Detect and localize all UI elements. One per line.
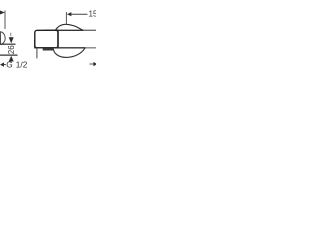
svg-text:26: 26 bbox=[7, 45, 16, 54]
wall line faint right bbox=[84, 29, 97, 31]
bottom line faint right bbox=[86, 47, 97, 49]
arrowhead left-top (cut at edge, points right) bbox=[0, 10, 5, 14]
svg-text:150: 150 bbox=[89, 9, 97, 18]
svg-text:1/2: 1/2 bbox=[16, 60, 28, 70]
dimension arrow 13 (points left) bbox=[67, 12, 72, 16]
arrowhead G12 (points left) bbox=[0, 62, 4, 66]
background bbox=[0, 0, 96, 96]
tick line upper bbox=[0, 43, 16, 45]
centerline dash above down-arrow bbox=[10, 33, 12, 37]
tick line lower bbox=[0, 54, 18, 56]
leader dash G12 bbox=[4, 64, 6, 66]
svg-text:G: G bbox=[6, 60, 12, 70]
extension line top-left bbox=[4, 11, 6, 30]
dimension arrow up bbox=[9, 56, 14, 62]
pipe stub vertical bbox=[36, 48, 38, 58]
extension line top-right bbox=[65, 12, 67, 24]
right edge arrow clipped bbox=[93, 62, 97, 66]
small dash below up-arrow bbox=[10, 62, 12, 64]
body rectangle bbox=[35, 30, 58, 47]
knob half-ellipse left edge bbox=[0, 32, 5, 45]
wall line bbox=[57, 29, 96, 31]
dome escutcheon arc bbox=[55, 24, 83, 30]
dimension tail 13 bbox=[71, 13, 87, 15]
bottom line bbox=[35, 47, 96, 49]
body rect corner square off bbox=[35, 30, 58, 47]
flange bowl half-ellipse bbox=[53, 48, 85, 57]
dimension arrow down bbox=[9, 37, 14, 43]
step bar under body bbox=[43, 48, 54, 50]
right edge dash bbox=[90, 63, 94, 65]
